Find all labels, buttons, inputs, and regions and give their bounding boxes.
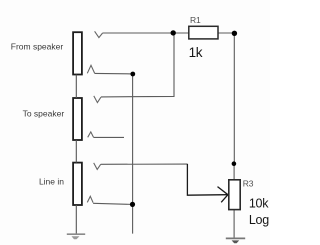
svg-text:Log: Log: [249, 213, 269, 227]
svg-text:To speaker: To speaker: [23, 108, 65, 118]
svg-text:1k: 1k: [189, 45, 203, 60]
svg-text:R1: R1: [190, 15, 201, 25]
svg-text:Line in: Line in: [39, 177, 64, 187]
svg-text:From speaker: From speaker: [11, 41, 64, 51]
svg-text:R3: R3: [243, 179, 254, 189]
svg-text:10k: 10k: [249, 196, 269, 210]
